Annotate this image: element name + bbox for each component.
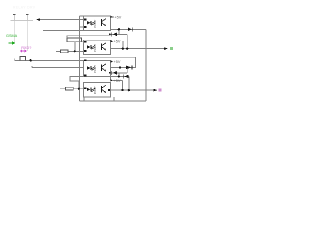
power arrow +5V c3 — [111, 60, 114, 62]
power arrow +5V c4 — [111, 79, 114, 81]
wire left rail vertical — [79, 16, 81, 101]
terminal square output 1 — [170, 47, 173, 50]
wire from bar down to terminal B — [26, 20, 28, 51]
pin 2 label U1 — [84, 26, 86, 28]
wire R3 top lead — [66, 36, 68, 38]
wire U1 collector to +5V — [111, 16, 115, 18]
svg-text:PC817: PC817 — [93, 19, 97, 27]
wire resistor R2 row — [56, 50, 84, 52]
wire resistor R4 row — [60, 88, 83, 90]
node R4 junction — [78, 88, 80, 90]
opto U1 internals — [87, 19, 107, 28]
wire +5V c3 row — [113, 79, 123, 81]
wire diode D2 row — [111, 33, 128, 35]
pin 4 label U1 — [109, 33, 111, 35]
power arrow +5V c1 — [111, 16, 113, 18]
wire R3 to U2 pin — [82, 41, 84, 43]
wire mid rail row — [67, 35, 111, 37]
svg-text:GSMA: GSMA — [6, 34, 18, 38]
resistor R3 — [67, 38, 82, 42]
power arrow +5V c2 — [111, 40, 114, 42]
button SW1 — [20, 57, 25, 61]
pin 4 label U4 — [108, 89, 110, 91]
node button junction — [29, 59, 31, 61]
opto U1 box — [84, 16, 111, 30]
diode D6 — [109, 71, 117, 75]
wire stub to +5V c3 — [110, 76, 112, 80]
wire output 2 row — [111, 89, 157, 91]
node loop junction — [119, 66, 121, 68]
wire U3 upper input row — [32, 66, 84, 68]
opto U3 internals — [87, 64, 107, 73]
wire +5V U2 down to output 1 — [122, 41, 124, 48]
wire rail top stub — [80, 15, 84, 17]
capacitor C1 — [13, 15, 15, 21]
node U3 emitter junction — [118, 75, 120, 77]
wire R3 bottom to R2 row — [74, 42, 76, 52]
svg-text:PC817: PC817 — [93, 64, 97, 72]
svg-text:+5V: +5V — [114, 40, 121, 44]
diode D3 — [126, 65, 132, 69]
terminal square output 2 — [159, 89, 162, 92]
wire emitter row down to output 2 — [128, 76, 130, 90]
node output2 junction A — [121, 89, 123, 91]
wire U3 lower jog — [70, 76, 84, 81]
wire U1 anode input — [40, 19, 84, 21]
wire ch2 loop — [80, 57, 136, 67]
resistor R2 — [61, 50, 69, 53]
svg-text:PC817: PC817 — [93, 86, 97, 94]
svg-text:+5V: +5V — [114, 79, 121, 83]
capacitor C2 — [26, 15, 28, 21]
node output1 junction A — [122, 47, 124, 49]
terminal arrow output 2 — [154, 89, 158, 92]
node output2 junction B — [128, 89, 130, 91]
opto U4 internals — [87, 85, 107, 94]
wire D2 row down to output 1 — [126, 34, 128, 48]
wire loop down to D6 row — [126, 67, 128, 72]
diode D1 — [128, 27, 133, 31]
wire U1 emitter row — [111, 28, 147, 30]
pin 1 label U1 — [84, 19, 86, 21]
wire stub below U4 right — [113, 97, 115, 101]
wire +5V c3 down to output 2 — [122, 80, 124, 90]
terminal input arrow green — [9, 41, 16, 44]
pin 1 label U4 — [84, 87, 86, 89]
wire stub rail to U1 pin 2 — [80, 26, 84, 28]
terminal bidir arrow magenta — [20, 49, 27, 52]
pin 1 label U2 — [84, 41, 86, 43]
pin 2 label U3 — [84, 75, 86, 77]
input arrow left — [36, 18, 40, 21]
svg-text:+5V: +5V — [114, 60, 121, 64]
wire bottom rail — [80, 100, 147, 102]
node U1 emitter junction — [118, 28, 120, 30]
wire output 1 row — [111, 48, 167, 50]
wire jog down to R4 row — [78, 81, 80, 89]
opto U2 internals — [87, 43, 107, 52]
svg-text:PC817: PC817 — [93, 43, 97, 51]
opto U2 box — [84, 40, 111, 54]
diode D5 — [123, 75, 128, 79]
wire stub below U4 left — [83, 97, 85, 101]
pin 2 label U2 — [84, 50, 86, 52]
pin 1 label U3 — [84, 59, 86, 61]
wire U1 cathode row — [43, 29, 84, 31]
wire button row to U3 — [15, 59, 84, 61]
wire top supply bar — [11, 19, 34, 21]
node R2 junction — [74, 50, 76, 52]
wire diode D6 row — [111, 72, 128, 74]
svg-text:RELAY DRV: RELAY DRV — [13, 6, 36, 10]
svg-text:RXD?: RXD? — [21, 46, 31, 50]
opto U4 box — [84, 83, 111, 98]
node output1 junction B — [126, 47, 128, 49]
terminal arrow output 1 — [164, 47, 168, 50]
wire jog D6 to emitter row — [118, 73, 120, 77]
wire jog emitter to D2 row — [118, 29, 120, 34]
svg-text:+5V: +5V — [114, 16, 121, 20]
wire from bar down to input terminal A — [13, 20, 15, 43]
wire right vertical to outputs — [145, 29, 147, 101]
diode D2 — [111, 32, 117, 36]
opto U3 box — [84, 60, 111, 76]
wire U3 emitter row — [111, 75, 129, 77]
resistor R4 — [66, 87, 74, 90]
